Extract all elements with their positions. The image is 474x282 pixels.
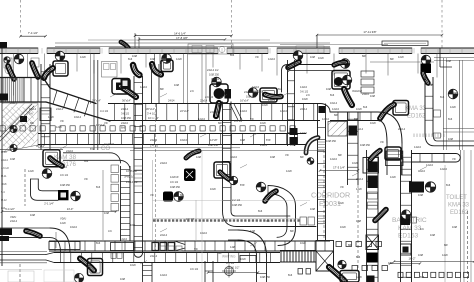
svg-text:8x6: 8x6 bbox=[330, 93, 335, 97]
svg-text:8"Ø: 8"Ø bbox=[240, 183, 244, 187]
svg-text:8"Ø: 8"Ø bbox=[90, 147, 94, 151]
svg-text:10Ø: 10Ø bbox=[418, 253, 423, 257]
svg-text:10x8: 10x8 bbox=[1, 183, 7, 186]
svg-text:10Ø 250: 10Ø 250 bbox=[121, 116, 132, 120]
svg-text:8Ø: 8Ø bbox=[290, 229, 293, 233]
svg-text:17'-11 3/8": 17'-11 3/8" bbox=[363, 30, 376, 34]
svg-text:VD: VD bbox=[150, 193, 154, 197]
svg-text:17'-3 1/4": 17'-3 1/4" bbox=[333, 166, 345, 170]
svg-text:12x10: 12x10 bbox=[280, 109, 288, 113]
svg-text:10Ø 250: 10Ø 250 bbox=[326, 139, 337, 143]
svg-text:12x8: 12x8 bbox=[56, 125, 62, 129]
svg-text:8Ø: 8Ø bbox=[30, 121, 33, 125]
svg-text:10Ø: 10Ø bbox=[270, 155, 275, 159]
svg-text:22x14: 22x14 bbox=[200, 99, 208, 103]
svg-text:VD: VD bbox=[452, 157, 456, 161]
svg-text:17'-8 3/8": 17'-8 3/8" bbox=[176, 36, 188, 40]
svg-text:8x6: 8x6 bbox=[448, 117, 453, 121]
svg-text:16x14: 16x14 bbox=[74, 115, 82, 119]
svg-text:12x10: 12x10 bbox=[198, 117, 206, 121]
svg-text:3-4 1/2: 3-4 1/2 bbox=[100, 109, 109, 113]
svg-text:14'-0": 14'-0" bbox=[67, 207, 74, 211]
svg-text:14x10: 14x10 bbox=[240, 109, 248, 113]
svg-text:12x10: 12x10 bbox=[120, 237, 128, 241]
svg-text:12x8: 12x8 bbox=[80, 55, 86, 59]
svg-text:10Ø: 10Ø bbox=[240, 138, 245, 142]
svg-text:8x6: 8x6 bbox=[96, 185, 101, 189]
svg-text:10Ø 250: 10Ø 250 bbox=[246, 95, 257, 99]
svg-text:24x10: 24x10 bbox=[160, 161, 168, 165]
svg-text:24x10: 24x10 bbox=[121, 121, 129, 125]
svg-text:VD/U: VD/U bbox=[60, 217, 66, 221]
svg-text:10x8: 10x8 bbox=[130, 263, 136, 267]
svg-text:10Ø: 10Ø bbox=[30, 213, 35, 217]
svg-text:10Ø: 10Ø bbox=[448, 137, 453, 141]
svg-text:12x10: 12x10 bbox=[230, 155, 238, 159]
svg-text:10x8: 10x8 bbox=[48, 115, 54, 119]
svg-text:12x10: 12x10 bbox=[140, 85, 148, 89]
svg-text:10x8: 10x8 bbox=[260, 121, 266, 125]
svg-text:10Ø: 10Ø bbox=[452, 91, 457, 95]
svg-text:8x6: 8x6 bbox=[258, 209, 263, 213]
svg-text:24x14: 24x14 bbox=[29, 107, 37, 111]
svg-text:16x8: 16x8 bbox=[262, 103, 268, 107]
svg-text:8Ø: 8Ø bbox=[300, 155, 303, 159]
svg-text:10Ø: 10Ø bbox=[310, 207, 315, 211]
svg-text:M-11: M-11 bbox=[1, 175, 7, 178]
svg-text:2-6 1/2: 2-6 1/2 bbox=[186, 217, 195, 221]
svg-text:24x14: 24x14 bbox=[356, 177, 364, 181]
svg-text:VD: VD bbox=[104, 121, 108, 125]
svg-text:12"x8": 12"x8" bbox=[210, 138, 218, 142]
svg-text:24"x14": 24"x14" bbox=[92, 99, 101, 103]
svg-text:10Ø 250: 10Ø 250 bbox=[208, 143, 219, 147]
svg-text:12Ø: 12Ø bbox=[250, 229, 255, 233]
svg-text:12x10: 12x10 bbox=[252, 85, 260, 89]
svg-text:3-6: 3-6 bbox=[29, 112, 33, 116]
svg-text:10x8: 10x8 bbox=[340, 225, 346, 229]
svg-text:8Ø: 8Ø bbox=[390, 57, 393, 61]
svg-text:36"x14": 36"x14" bbox=[36, 144, 45, 148]
svg-text:10x8: 10x8 bbox=[210, 187, 216, 191]
svg-text:9-6: 9-6 bbox=[420, 227, 424, 231]
svg-text:10Ø: 10Ø bbox=[150, 57, 155, 61]
svg-text:24x14: 24x14 bbox=[150, 138, 158, 142]
svg-text:8x6: 8x6 bbox=[1, 207, 6, 210]
svg-text:12x8: 12x8 bbox=[442, 253, 448, 257]
svg-text:10Ø 250: 10Ø 250 bbox=[170, 185, 181, 189]
svg-text:24x14: 24x14 bbox=[1, 159, 8, 162]
svg-text:16x14: 16x14 bbox=[356, 127, 364, 131]
svg-text:10x8: 10x8 bbox=[352, 161, 358, 165]
svg-text:10Ø: 10Ø bbox=[356, 219, 361, 223]
svg-text:IN14/LW: IN14/LW bbox=[352, 89, 362, 93]
svg-text:24x14: 24x14 bbox=[121, 107, 129, 111]
svg-text:12x8: 12x8 bbox=[60, 221, 66, 225]
svg-text:24x14: 24x14 bbox=[10, 219, 18, 223]
svg-text:16'-10 1/2": 16'-10 1/2" bbox=[227, 266, 239, 270]
svg-text:WAITING: WAITING bbox=[222, 254, 236, 258]
svg-text:3-6: 3-6 bbox=[108, 229, 112, 233]
svg-text:VD: VD bbox=[285, 153, 289, 157]
svg-text:10Ø: 10Ø bbox=[326, 87, 331, 91]
svg-text:CO: CO bbox=[101, 146, 110, 152]
svg-text:10x8: 10x8 bbox=[300, 241, 306, 245]
svg-text:22x14: 22x14 bbox=[398, 127, 406, 131]
svg-text:14x10: 14x10 bbox=[300, 85, 308, 89]
svg-text:3'-4 1/2": 3'-4 1/2" bbox=[147, 112, 157, 116]
svg-text:KAM 33: KAM 33 bbox=[398, 225, 422, 232]
svg-text:10Ø 250: 10Ø 250 bbox=[360, 143, 371, 147]
svg-text:8Ø: 8Ø bbox=[362, 54, 365, 58]
svg-text:12x8 Ø: 12x8 Ø bbox=[170, 175, 178, 179]
svg-text:12x8: 12x8 bbox=[450, 105, 456, 109]
svg-text:10Ø: 10Ø bbox=[120, 277, 125, 281]
svg-text:8x6: 8x6 bbox=[288, 273, 293, 277]
svg-text:VD: VD bbox=[340, 185, 344, 189]
svg-text:3-4 1/2: 3-4 1/2 bbox=[226, 261, 235, 265]
svg-text:12x10: 12x10 bbox=[300, 131, 308, 135]
svg-text:8x6: 8x6 bbox=[230, 53, 235, 57]
svg-text:10Ø: 10Ø bbox=[130, 223, 135, 227]
svg-text:10Ø: 10Ø bbox=[104, 211, 109, 215]
svg-text:9-6: 9-6 bbox=[266, 219, 270, 223]
svg-text:36"x14": 36"x14" bbox=[122, 99, 131, 103]
svg-text:16'-2": 16'-2" bbox=[408, 257, 415, 261]
svg-text:12x10: 12x10 bbox=[268, 57, 276, 61]
svg-text:M-12: M-12 bbox=[1, 199, 7, 202]
svg-text:24x14: 24x14 bbox=[268, 98, 276, 102]
svg-text:22x14: 22x14 bbox=[160, 233, 168, 237]
svg-text:1-4 1/2: 1-4 1/2 bbox=[150, 144, 159, 148]
svg-text:12x10: 12x10 bbox=[426, 163, 434, 167]
svg-text:ED163: ED163 bbox=[398, 233, 418, 240]
svg-text:10Ø: 10Ø bbox=[10, 157, 15, 161]
svg-text:46x10: 46x10 bbox=[418, 169, 426, 173]
svg-text:16x10: 16x10 bbox=[180, 138, 188, 142]
svg-text:ED162: ED162 bbox=[407, 114, 426, 120]
svg-text:14x10: 14x10 bbox=[414, 145, 422, 149]
svg-text:12x10: 12x10 bbox=[330, 157, 338, 161]
svg-text:M-10: M-10 bbox=[1, 151, 7, 154]
svg-text:10Ø: 10Ø bbox=[428, 83, 433, 87]
svg-text:VD: VD bbox=[194, 247, 198, 251]
svg-text:8Ø: 8Ø bbox=[218, 251, 221, 255]
svg-text:12x8: 12x8 bbox=[398, 55, 404, 59]
svg-text:12x10: 12x10 bbox=[440, 167, 448, 171]
svg-text:10"Ø 250: 10"Ø 250 bbox=[126, 169, 137, 173]
svg-text:8Ø: 8Ø bbox=[334, 113, 337, 117]
svg-text:8x6: 8x6 bbox=[356, 255, 361, 259]
svg-text:12x10: 12x10 bbox=[322, 117, 330, 121]
svg-text:10x8: 10x8 bbox=[370, 121, 376, 125]
svg-text:10x8: 10x8 bbox=[356, 107, 362, 111]
svg-text:7'-4 1/2": 7'-4 1/2" bbox=[28, 31, 38, 35]
svg-text:VD: VD bbox=[255, 55, 259, 59]
svg-text:12x8: 12x8 bbox=[338, 201, 344, 205]
svg-text:10Ø: 10Ø bbox=[174, 83, 179, 87]
svg-text:2-2 1/4: 2-2 1/4 bbox=[232, 198, 241, 202]
svg-text:8Ø: 8Ø bbox=[218, 121, 221, 125]
svg-text:12Ø: 12Ø bbox=[196, 155, 201, 159]
svg-text:10Ø: 10Ø bbox=[370, 94, 375, 98]
svg-text:8Ø: 8Ø bbox=[354, 117, 357, 121]
svg-text:12x8: 12x8 bbox=[356, 187, 362, 191]
svg-text:3-1/2x10: 3-1/2x10 bbox=[104, 142, 115, 146]
svg-text:2'-1 1/4": 2'-1 1/4" bbox=[44, 202, 54, 206]
svg-text:12x8: 12x8 bbox=[290, 143, 296, 147]
svg-text:8Ø: 8Ø bbox=[180, 193, 183, 197]
svg-text:2-6 1/4: 2-6 1/4 bbox=[210, 110, 219, 114]
svg-text:10Ø: 10Ø bbox=[430, 233, 435, 237]
svg-text:8x6: 8x6 bbox=[96, 241, 101, 245]
svg-text:36"x14": 36"x14" bbox=[146, 107, 155, 111]
svg-text:8x6: 8x6 bbox=[363, 105, 368, 109]
svg-text:10x8: 10x8 bbox=[318, 56, 324, 60]
svg-text:5-4: 5-4 bbox=[1, 191, 5, 194]
svg-text:ED162: ED162 bbox=[450, 210, 469, 216]
svg-text:3-6 1/2: 3-6 1/2 bbox=[60, 173, 69, 177]
svg-text:12x8: 12x8 bbox=[390, 175, 396, 179]
svg-text:8x6: 8x6 bbox=[420, 275, 425, 279]
svg-text:8"Ø: 8"Ø bbox=[266, 138, 270, 142]
svg-text:7-8: 7-8 bbox=[212, 77, 216, 81]
svg-text:3-6 1/2: 3-6 1/2 bbox=[121, 112, 130, 116]
svg-text:8Ø: 8Ø bbox=[48, 155, 51, 159]
svg-text:12x8: 12x8 bbox=[28, 169, 34, 173]
svg-text:24x14 1/2: 24x14 1/2 bbox=[126, 180, 138, 184]
svg-text:10Ø 250: 10Ø 250 bbox=[252, 90, 263, 94]
svg-text:10Ø: 10Ø bbox=[132, 54, 137, 58]
svg-text:12x8: 12x8 bbox=[356, 275, 362, 279]
svg-text:8Ø: 8Ø bbox=[160, 87, 163, 91]
svg-text:10Ø 250: 10Ø 250 bbox=[260, 275, 271, 279]
svg-text:8x6: 8x6 bbox=[121, 126, 126, 130]
svg-text:3-6 1/2: 3-6 1/2 bbox=[300, 90, 309, 94]
svg-text:10Ø: 10Ø bbox=[388, 261, 393, 265]
svg-text:16x14: 16x14 bbox=[330, 101, 338, 105]
svg-text:12x10: 12x10 bbox=[160, 273, 168, 277]
svg-text:3/4x2 1/2: 3/4x2 1/2 bbox=[124, 175, 135, 179]
svg-text:VD: VD bbox=[84, 177, 88, 181]
svg-text:12x8: 12x8 bbox=[286, 169, 292, 173]
svg-text:8Ø: 8Ø bbox=[338, 153, 341, 157]
svg-text:24x14: 24x14 bbox=[56, 107, 64, 111]
svg-text:16"x14": 16"x14" bbox=[240, 99, 249, 103]
svg-text:8Ø: 8Ø bbox=[444, 243, 447, 247]
svg-text:36x17: 36x17 bbox=[10, 101, 18, 105]
svg-text:22x14: 22x14 bbox=[300, 107, 308, 111]
svg-text:24/14: 24/14 bbox=[168, 99, 175, 103]
svg-text:12x10: 12x10 bbox=[60, 165, 68, 169]
svg-text:10Ø 250: 10Ø 250 bbox=[209, 73, 220, 77]
svg-text:24x14 1/2: 24x14 1/2 bbox=[207, 68, 219, 72]
svg-text:10Ø: 10Ø bbox=[446, 59, 451, 63]
svg-text:8x6: 8x6 bbox=[440, 95, 445, 99]
svg-text:8x6: 8x6 bbox=[446, 183, 451, 187]
svg-text:24x14: 24x14 bbox=[260, 143, 268, 147]
svg-text:14Ø: 14Ø bbox=[230, 245, 235, 249]
svg-text:VD: VD bbox=[60, 119, 64, 123]
svg-text:10Ø: 10Ø bbox=[310, 55, 315, 59]
svg-text:22"x14": 22"x14" bbox=[180, 109, 189, 113]
svg-text:2-6: 2-6 bbox=[306, 93, 310, 97]
svg-text:16x8: 16x8 bbox=[302, 97, 308, 101]
svg-text:3-6 1/2: 3-6 1/2 bbox=[190, 267, 199, 271]
svg-text:12x10: 12x10 bbox=[332, 107, 340, 111]
svg-text:8x6: 8x6 bbox=[278, 87, 283, 91]
svg-text:12x8: 12x8 bbox=[176, 57, 182, 61]
svg-text:3-6 1/2: 3-6 1/2 bbox=[1, 167, 9, 170]
svg-text:8Ø: 8Ø bbox=[348, 243, 351, 247]
svg-text:KMA 33: KMA 33 bbox=[448, 203, 470, 209]
svg-text:2-6 1/4: 2-6 1/4 bbox=[205, 95, 214, 99]
svg-text:24x10: 24x10 bbox=[66, 149, 74, 153]
svg-text:16x10: 16x10 bbox=[70, 225, 78, 229]
svg-text:10'-1 1/2": 10'-1 1/2" bbox=[148, 116, 159, 120]
svg-text:3-4 1/2: 3-4 1/2 bbox=[234, 119, 243, 123]
svg-text:24x14: 24x14 bbox=[150, 254, 158, 258]
svg-text:10Ø: 10Ø bbox=[452, 225, 457, 229]
svg-text:8x6: 8x6 bbox=[84, 159, 89, 163]
svg-text:10Ø: 10Ø bbox=[418, 193, 423, 197]
svg-text:10x8: 10x8 bbox=[240, 257, 246, 261]
svg-text:10Ø 250: 10Ø 250 bbox=[60, 183, 71, 187]
svg-text:2-6: 2-6 bbox=[190, 89, 194, 93]
svg-text:10Ø 250: 10Ø 250 bbox=[232, 203, 243, 207]
svg-text:VD/U: VD/U bbox=[10, 215, 16, 219]
svg-text:5'-4 1/2": 5'-4 1/2" bbox=[5, 207, 15, 211]
svg-text:VD: VD bbox=[250, 117, 254, 121]
svg-text:VD: VD bbox=[380, 140, 384, 144]
svg-text:3-6 1/2: 3-6 1/2 bbox=[170, 180, 179, 184]
svg-text:24x10: 24x10 bbox=[362, 92, 370, 96]
svg-text:16x10: 16x10 bbox=[200, 231, 208, 235]
